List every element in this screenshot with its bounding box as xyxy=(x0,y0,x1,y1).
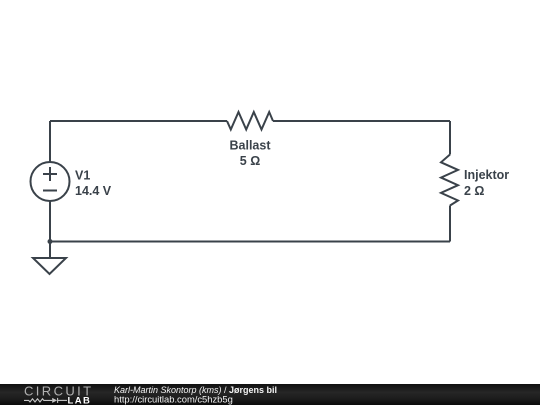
svg-text:LAB: LAB xyxy=(68,395,92,405)
wire Ballast right terminal to top-right corner xyxy=(273,120,450,122)
wire from V1 top terminal up to top-left corner xyxy=(49,121,51,162)
svg-text:5 Ω: 5 Ω xyxy=(240,154,260,168)
svg-text:Injektor: Injektor xyxy=(464,168,509,182)
resistor R1 Ballast xyxy=(227,112,273,130)
voltage source V1 xyxy=(31,162,70,201)
svg-text:2 Ω: 2 Ω xyxy=(464,184,484,198)
resistor R2 Injektor xyxy=(441,155,458,206)
svg-text:14.4 V: 14.4 V xyxy=(75,184,112,198)
ground GND xyxy=(33,258,66,274)
junction node dot xyxy=(48,239,53,244)
wire bottom-right corner to junction xyxy=(50,241,450,243)
wire junction to ground xyxy=(49,242,51,259)
wire Injektor bottom terminal to bottom-right corner xyxy=(449,206,451,242)
svg-text:V1: V1 xyxy=(75,169,90,183)
wire top-left corner to Ballast left terminal xyxy=(50,120,227,122)
footer bar xyxy=(0,384,540,405)
logo wire with resistor zigzag and diode xyxy=(24,398,67,403)
svg-text:http://circuitlab.com/c5hzb5g: http://circuitlab.com/c5hzb5g xyxy=(114,393,233,404)
wire V1 bottom terminal to junction xyxy=(49,201,51,242)
wire top-right corner down to Injektor top terminal xyxy=(449,121,451,155)
svg-text:Ballast: Ballast xyxy=(230,139,272,153)
